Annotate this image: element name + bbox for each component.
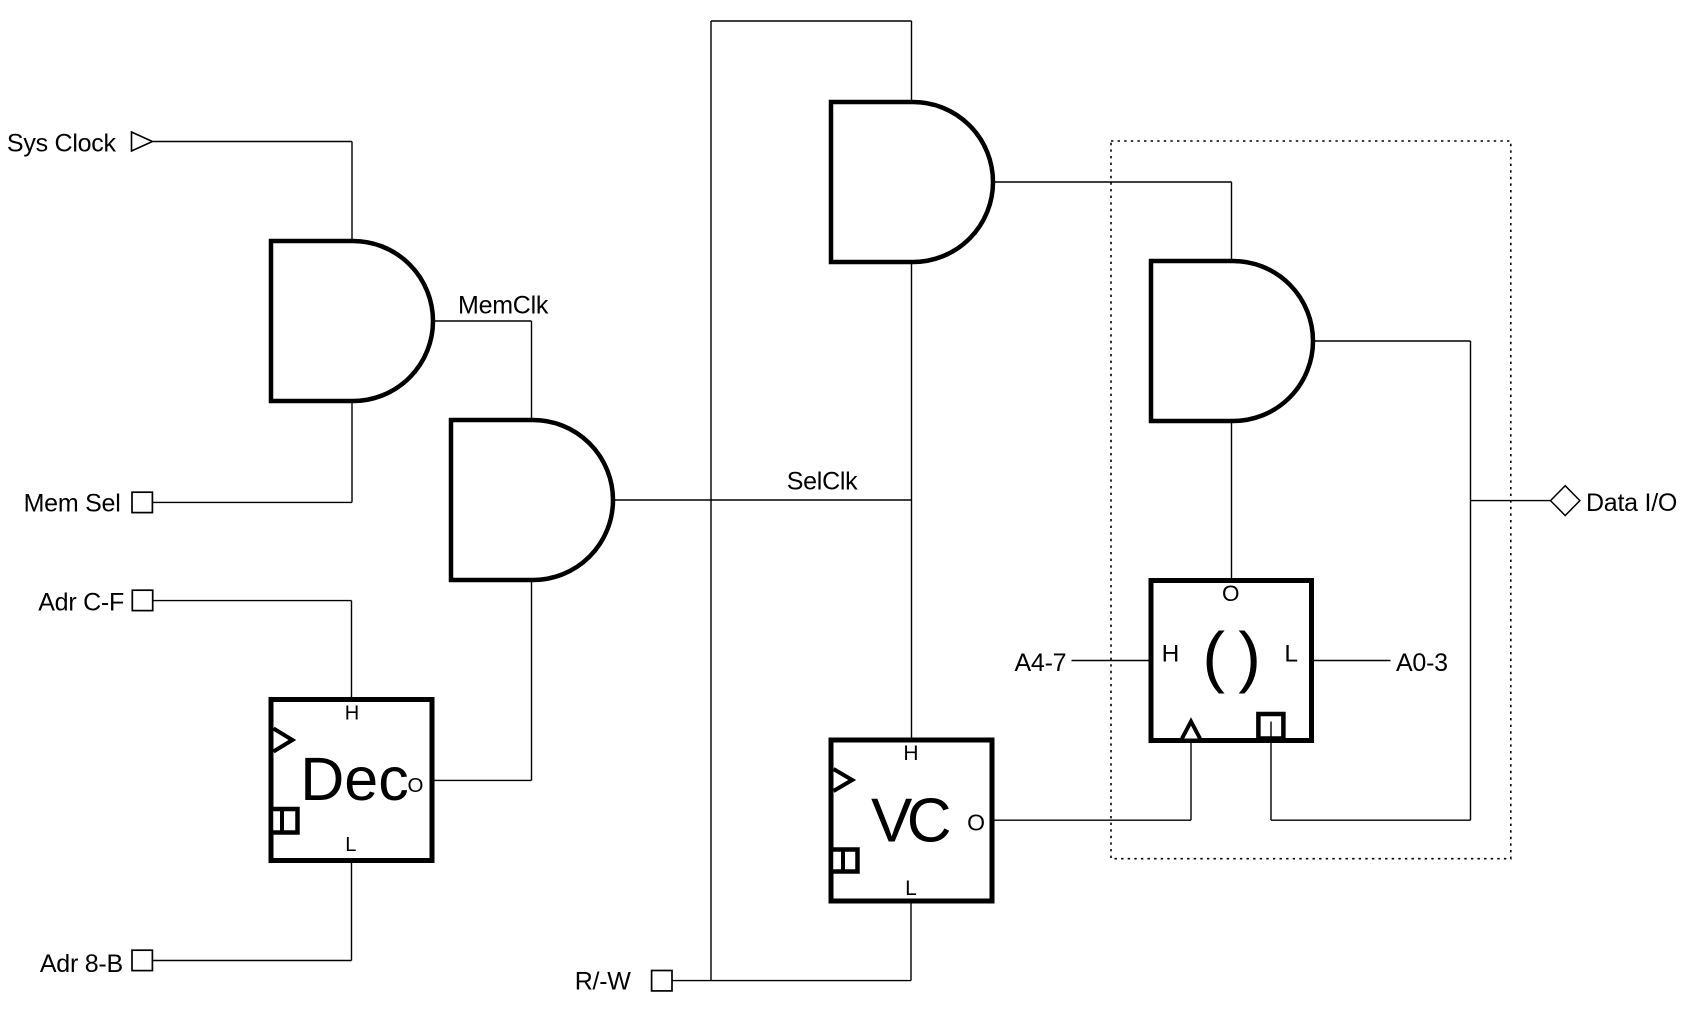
- wire MemClk net A1 output (horizontal): [433, 320, 532, 322]
- svg-text:L: L: [1284, 640, 1298, 667]
- wire feedback to latch D pin (vertical): [1270, 741, 1272, 821]
- and-gate A1: [271, 241, 433, 401]
- box U1 latch ( ): [1151, 581, 1312, 741]
- wire Adr C-F to Dec H (horizontal): [153, 600, 352, 602]
- svg-text:Adr C-F: Adr C-F: [38, 589, 124, 617]
- svg-text:H: H: [903, 742, 918, 765]
- and-gate A3: [831, 102, 993, 262]
- svg-text:A0-3: A0-3: [1396, 649, 1448, 677]
- Dec clock marker: [274, 729, 293, 752]
- svg-text:O: O: [967, 809, 985, 835]
- wire SelClk net A2 output (horizontal): [613, 499, 912, 501]
- svg-text:O: O: [1222, 581, 1240, 606]
- Dec bus marker: [271, 807, 298, 834]
- wire VC O output (horizontal): [992, 819, 1191, 821]
- input pin Sys Clock (clock symbol): [132, 132, 153, 151]
- wire Adr C-F to Dec H (vertical): [351, 601, 353, 700]
- svg-text:SelClk: SelClk: [787, 468, 858, 496]
- latch clock marker: [1182, 722, 1200, 739]
- svg-text:H: H: [1162, 640, 1180, 667]
- wire R/-W (horizontal): [672, 980, 912, 982]
- wire A3 bottom to SelClk junction to VC H (vertical): [911, 262, 913, 740]
- wire Adr 8-B to Dec L (vertical): [351, 861, 353, 961]
- wire A4 bottom to latch O (vertical): [1231, 421, 1233, 581]
- input pin R/-W: [652, 971, 672, 991]
- svg-text:L: L: [905, 877, 917, 900]
- wire A3 output to A4 top (vertical): [1231, 182, 1233, 261]
- wire latch L to A0-3 (horizontal): [1312, 660, 1391, 662]
- input pin Adr C-F: [132, 590, 152, 610]
- dotted subcircuit boundary: [1111, 141, 1511, 859]
- svg-text:Adr 8-B: Adr 8-B: [40, 950, 123, 978]
- svg-text:MemClk: MemClk: [458, 292, 549, 320]
- wire VC O to latch clock pin (vertical): [1190, 741, 1192, 821]
- wire Data I/O stub (horizontal): [1471, 500, 1551, 502]
- svg-text:Sys Clock: Sys Clock: [7, 130, 117, 158]
- input pin Adr 8-B: [132, 950, 152, 970]
- VC clock marker: [834, 769, 853, 791]
- output pin Data I/O (diamond): [1551, 486, 1580, 516]
- svg-text:R/-W: R/-W: [575, 968, 632, 996]
- wire Adr 8-B to Dec L (horizontal): [152, 960, 351, 962]
- wire R/-W to VC L (vertical): [910, 901, 912, 981]
- wire A3 output (horizontal): [993, 181, 1232, 183]
- wire MemClk net to A2 top (vertical): [531, 321, 533, 420]
- wire A4 output (horizontal): [1313, 340, 1471, 342]
- wire Dec O to A2 bottom (vertical): [531, 580, 533, 780]
- svg-text:Dec: Dec: [300, 745, 408, 813]
- wire R/-W riser (vertical long): [710, 21, 712, 981]
- wire top loop (horizontal): [711, 20, 912, 22]
- wire A4-7 to latch H (horizontal): [1072, 660, 1152, 662]
- box Dec (decoder): [271, 700, 432, 861]
- wire Sys Clock to A1 top (vertical): [351, 142, 353, 242]
- svg-text:Mem Sel: Mem Sel: [24, 489, 121, 517]
- input pin Mem Sel: [132, 492, 152, 512]
- latch bus marker: [1258, 714, 1283, 741]
- svg-text:Data I/O: Data I/O: [1586, 489, 1677, 517]
- wire A4 output feedback (vertical): [1470, 341, 1472, 820]
- svg-text:O: O: [408, 774, 424, 797]
- VC bus marker: [831, 848, 858, 874]
- svg-text:H: H: [345, 702, 359, 724]
- box VC (valid counter): [831, 740, 992, 901]
- wire top loop to A3 top (vertical): [911, 21, 913, 102]
- svg-text:L: L: [345, 834, 356, 856]
- wire Mem Sel to A1 bottom (horizontal): [152, 501, 352, 503]
- svg-text:VC: VC: [871, 786, 950, 855]
- svg-text:): ): [1238, 619, 1261, 695]
- wire feedback to latch D pin (horizontal): [1271, 819, 1471, 821]
- svg-text:(: (: [1202, 619, 1225, 695]
- and-gate A2: [451, 420, 613, 580]
- svg-text:A4-7: A4-7: [1015, 649, 1067, 677]
- wire Mem Sel to A1 bottom (vertical): [351, 401, 353, 502]
- and-gate A4: [1151, 261, 1313, 421]
- wire Dec O output (horizontal): [432, 779, 532, 781]
- wire Sys Clock to A1 top (horizontal): [152, 141, 352, 143]
